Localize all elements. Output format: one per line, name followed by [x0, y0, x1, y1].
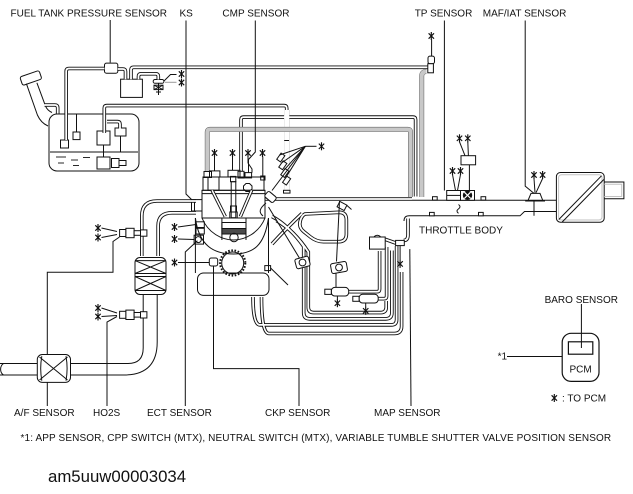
svg-text:MAP SENSOR: MAP SENSOR	[374, 408, 441, 419]
svg-text:KS: KS	[180, 9, 194, 20]
svg-text:PCM: PCM	[570, 365, 592, 376]
svg-text:BARO SENSOR: BARO SENSOR	[545, 295, 618, 306]
svg-text:A/F SENSOR: A/F SENSOR	[14, 408, 75, 419]
svg-text:am5uuw00003034: am5uuw00003034	[48, 467, 186, 486]
svg-text:CKP SENSOR: CKP SENSOR	[265, 408, 330, 419]
svg-text:CMP SENSOR: CMP SENSOR	[222, 9, 289, 20]
svg-text:MAF/IAT SENSOR: MAF/IAT SENSOR	[483, 9, 567, 20]
svg-text:*1: *1	[498, 352, 508, 363]
svg-text:FUEL TANK PRESSURE SENSOR: FUEL TANK PRESSURE SENSOR	[11, 9, 168, 20]
svg-text:*1: APP SENSOR, CPP SWITCH (MT: *1: APP SENSOR, CPP SWITCH (MTX), NEUTRA…	[21, 433, 612, 444]
svg-text:TP SENSOR: TP SENSOR	[415, 9, 473, 20]
svg-text:ECT SENSOR: ECT SENSOR	[147, 408, 212, 419]
svg-text:THROTTLE BODY: THROTTLE BODY	[419, 226, 503, 237]
svg-text:: TO PCM: : TO PCM	[562, 394, 606, 405]
svg-text:HO2S: HO2S	[93, 408, 121, 419]
